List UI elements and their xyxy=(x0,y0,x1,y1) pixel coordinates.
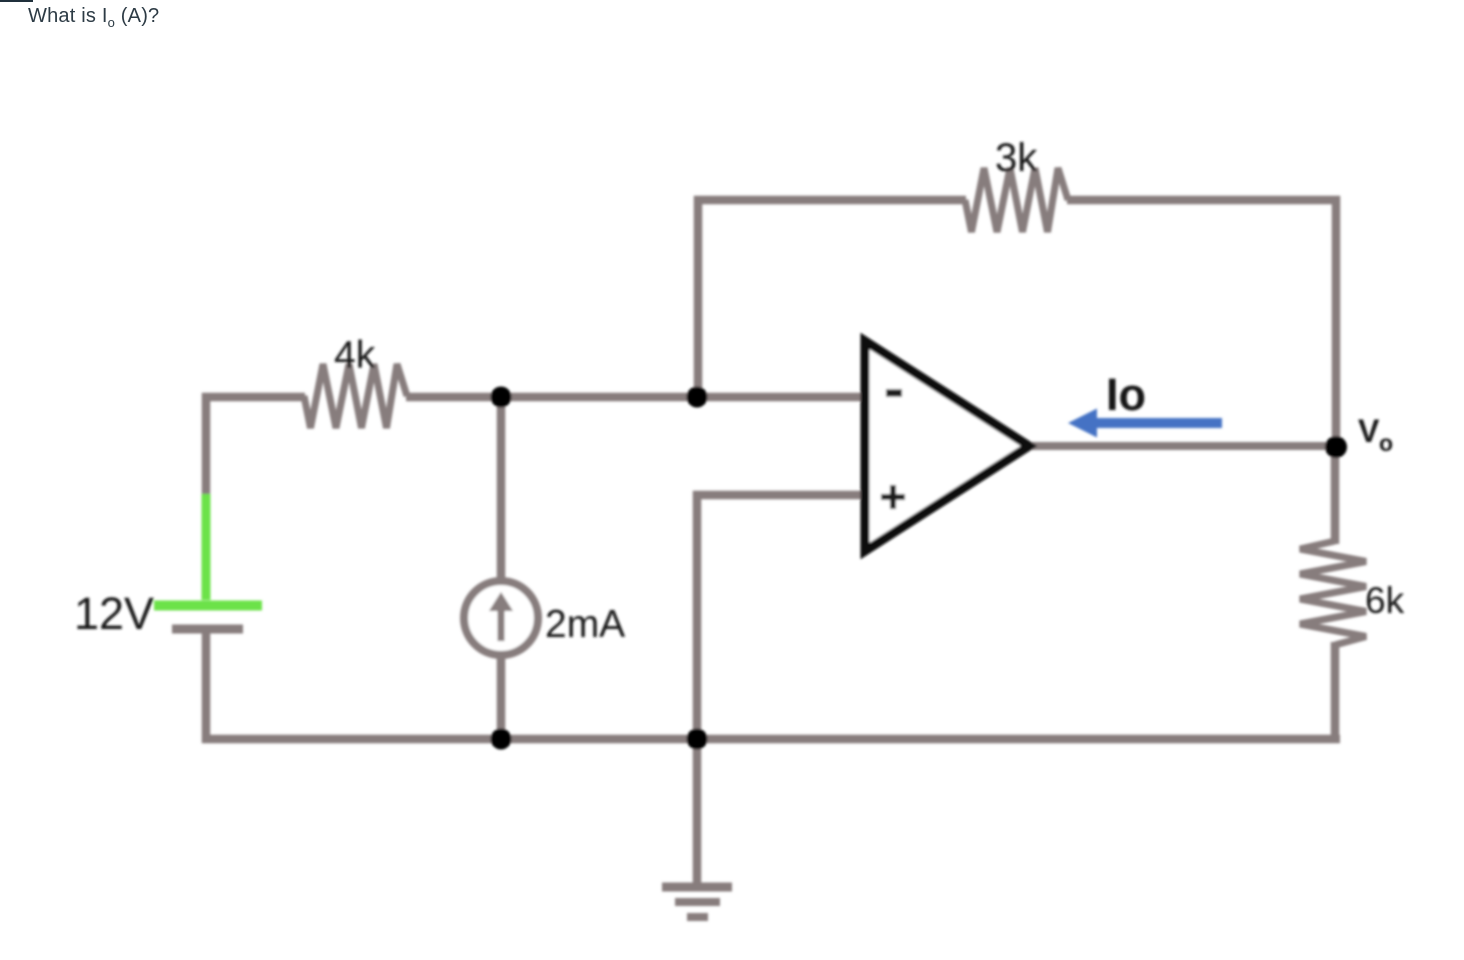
node dot: Vo output node xyxy=(1325,436,1347,458)
op-amp plus sign xyxy=(881,485,905,509)
wire: 4k to op-amp inverting input xyxy=(406,393,864,402)
svg-text:Io: Io xyxy=(1106,369,1146,420)
battery V1 green top lead xyxy=(202,494,211,600)
wire: feedback left vertical and top rail to 3k xyxy=(698,200,966,401)
current arrow Io (blue) xyxy=(1068,409,1222,438)
op-amp minus sign xyxy=(886,389,902,397)
svg-text:V: V xyxy=(1358,413,1380,449)
battery V1 negative plate (short) xyxy=(172,625,243,634)
svg-text:6k: 6k xyxy=(1365,580,1405,621)
svg-text:12V: 12V xyxy=(74,588,154,639)
current source I1 arrow (up) xyxy=(498,606,505,641)
node dot: 4k / current source junction xyxy=(491,387,512,408)
ground stem xyxy=(693,735,702,887)
wire: top-left corner, battery top to 4k resistor xyxy=(206,397,305,499)
wire: Vo node down to 6k xyxy=(1331,447,1340,544)
node dot: bottom rail / ground junction xyxy=(687,729,708,750)
node dot: bottom rail / current source xyxy=(491,729,512,750)
ground bar 3 xyxy=(687,913,708,921)
svg-text:4k: 4k xyxy=(334,334,376,377)
svg-text:3k: 3k xyxy=(995,136,1038,180)
svg-text:2mA: 2mA xyxy=(545,603,625,646)
top-left black bar xyxy=(0,0,33,2)
current source I1 circle xyxy=(464,581,538,655)
wire: bottom rail xyxy=(202,735,1340,744)
op-amp U1 triangle xyxy=(865,341,1029,551)
resistor 3k zigzag xyxy=(965,168,1068,232)
wire: 6k to bottom rail xyxy=(1331,642,1340,743)
node dot: feedback / inverting input junction xyxy=(687,387,708,408)
resistor 6k zigzag (vertical) xyxy=(1300,541,1366,645)
wire: current source bottom to bottom rail xyxy=(497,655,506,739)
battery bottom lead xyxy=(202,629,211,743)
wire: op-amp output to Vo node xyxy=(1025,442,1336,450)
wire: node A to current source top xyxy=(497,397,506,584)
ground bar 2 xyxy=(675,898,720,906)
wire: 3k to right rail down to Vo node xyxy=(1067,200,1336,447)
question text xyxy=(28,5,159,28)
svg-text:o: o xyxy=(1379,430,1393,456)
battery V1 positive plate (green, long) xyxy=(154,601,262,611)
ground bar 1 xyxy=(662,883,732,892)
resistor 4k zigzag xyxy=(304,364,407,428)
wire: non-inverting input branch xyxy=(697,495,864,743)
